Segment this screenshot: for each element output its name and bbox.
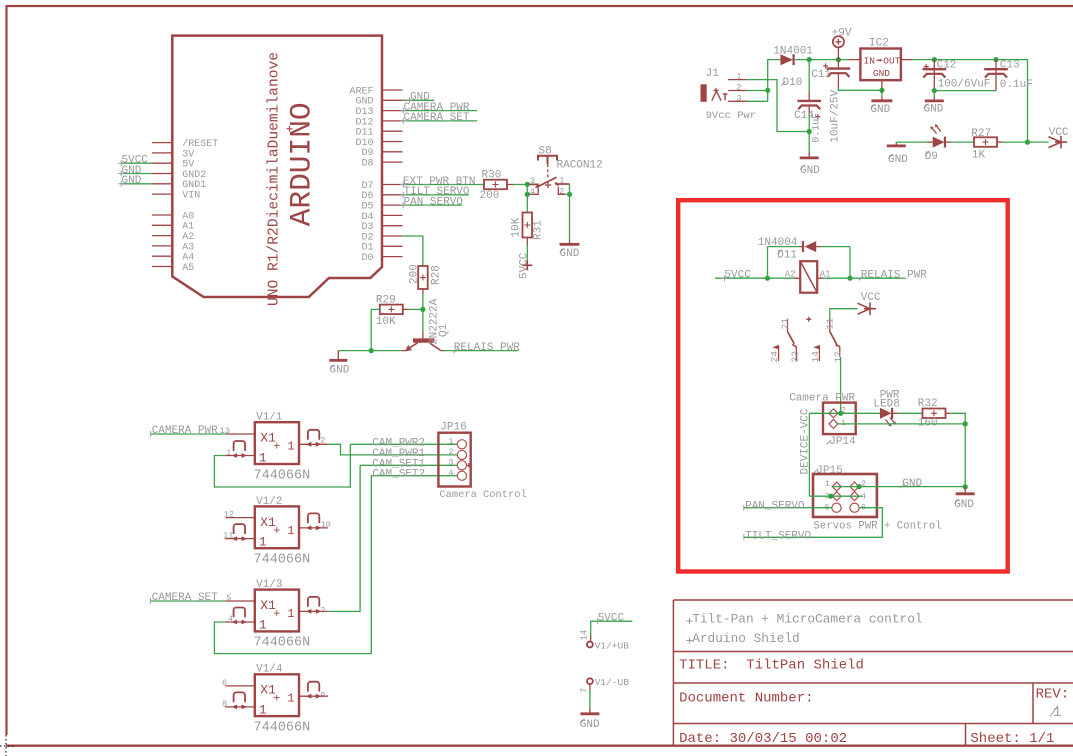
node junction IC2 GND (879, 88, 884, 93)
svg-text:1: 1 (559, 176, 564, 186)
svg-text:V1/3: V1/3 (256, 579, 282, 591)
relay contact arm 21 (787, 319, 789, 332)
svg-text:1: 1 (841, 418, 846, 428)
analog switch V1/3 box (255, 590, 299, 632)
svg-text:TILT_SERVO: TILT_SERVO (745, 530, 811, 542)
wire JP14 pin1 to node (838, 423, 965, 425)
V1 -UB pin (587, 678, 593, 684)
capacitor C13 (995, 60, 997, 91)
svg-text:1: 1 (259, 535, 267, 550)
node junction pin1 wire (963, 421, 968, 426)
frame bottom border (6, 745, 1073, 747)
svg-text:1: 1 (448, 437, 453, 447)
relay contact arm 11 (829, 319, 831, 332)
svg-text:4: 4 (448, 468, 453, 478)
resistor R28 (418, 266, 428, 289)
frame top border (7, 5, 1073, 7)
svg-text:+ 1: + 1 (273, 524, 294, 538)
node junction J1 pin2 (765, 88, 770, 93)
wire net CAM_SET2 (371, 475, 457, 477)
JP15 pin 6 circle (850, 503, 859, 512)
analog switch V1/1 box (255, 422, 299, 464)
connector J1 sleeve contact (723, 94, 728, 100)
V1/4 pin 6 (226, 685, 255, 687)
svg-text:9Vcc Pwr: 9Vcc Pwr (706, 110, 756, 122)
svg-text:VCC: VCC (1049, 127, 1069, 139)
svg-text:24: 24 (769, 351, 780, 363)
wire rail diode to IC2 IN (795, 59, 849, 61)
svg-text:11: 11 (825, 318, 836, 330)
svg-text:A5: A5 (182, 263, 194, 274)
title block outline (673, 600, 1073, 746)
resistor R27 (974, 137, 997, 147)
analog switch V1/2 box (255, 506, 299, 548)
UBPINS (580, 612, 633, 730)
wire net CAM_SET1 (360, 464, 457, 466)
V1/1 pin 2 with icon (299, 443, 328, 445)
REDBOX (678, 200, 1008, 571)
arduino right pins (382, 90, 403, 257)
wire J1 pin1 to C14 bottom (747, 80, 810, 132)
node junction GND corner (963, 484, 968, 489)
svg-text:Document Number:: Document Number: (679, 691, 813, 707)
svg-text:1K: 1K (972, 149, 986, 161)
node junction C14 top (807, 57, 812, 62)
svg-text:+ 1: + 1 (273, 607, 294, 621)
capacitor C12 (933, 60, 935, 91)
svg-text:IC2: IC2 (869, 37, 889, 49)
V1/4 pin 9 with icon (299, 695, 328, 697)
title block divider Sheet (965, 724, 967, 746)
svg-text:A2: A2 (785, 269, 796, 279)
capacitor C14 (808, 60, 810, 92)
wire contact1 down to GND (569, 184, 571, 240)
svg-text:GND: GND (122, 175, 142, 187)
svg-text:R31: R31 (533, 220, 545, 240)
relay contact pin 22 (795, 347, 797, 362)
JP15 pin 5 circle (832, 503, 841, 512)
SWITCHES (150, 412, 526, 736)
svg-text:RELAIS_PWR: RELAIS_PWR (454, 342, 520, 354)
ground symbol JP15 (964, 487, 966, 493)
relay contact pin 24 flag (778, 346, 780, 361)
svg-text:100/6VuF: 100/6VuF (938, 78, 991, 90)
svg-text:UNO R1/R2DiecimilaDuemilanove: UNO R1/R2DiecimilaDuemilanove (267, 52, 283, 306)
svg-text:PAN_SERVO: PAN_SERVO (745, 501, 805, 513)
wire contact 12 down to JP14 pin2 (840, 357, 842, 413)
svg-text:R30: R30 (482, 170, 502, 182)
svg-text:Camera Control: Camera Control (439, 489, 526, 501)
pin numbers JP15 (825, 479, 866, 512)
wire net GND left B (121, 183, 152, 185)
JP15 pin 3 diamond (832, 492, 841, 501)
wire node3 to node4 to R31 (526, 184, 528, 212)
svg-text:Date: 30/03/15 00:02: Date: 30/03/15 00:02 (679, 731, 847, 747)
svg-text:744066N: 744066N (254, 468, 311, 483)
JP16 pin 3 circle (457, 461, 466, 470)
svg-text:0.1uF: 0.1uF (1000, 79, 1033, 91)
wire rail OUT to C12 C13 corner (934, 60, 1027, 143)
J1 pins 1 2 3 (728, 80, 746, 102)
title block divider REV (1032, 683, 1034, 724)
svg-text:V1/2: V1/2 (256, 496, 282, 508)
svg-text:V1/+UB: V1/+UB (595, 640, 630, 651)
pin numbers JP16 (448, 437, 453, 478)
svg-text:2N2222A: 2N2222A (429, 298, 441, 345)
svg-text:VCC: VCC (861, 292, 881, 304)
svg-text:1: 1 (259, 450, 267, 465)
wire R28 to node (422, 289, 424, 294)
svg-text:OUT: OUT (883, 56, 900, 67)
svg-text:9: 9 (320, 690, 325, 700)
wire VCC to contact 11 (830, 309, 858, 319)
relay cross mark (806, 317, 811, 322)
wire R27 to VCC node (997, 141, 1002, 143)
wire net 5VCC (715, 277, 794, 279)
svg-text:IN: IN (864, 56, 875, 67)
switch S8 dashed actuator (547, 164, 549, 180)
connector JP14 box (823, 403, 856, 435)
wire net 5VCC left (121, 162, 152, 164)
svg-text:REV:: REV: (1036, 687, 1070, 703)
svg-text:Sheet: 1/1: Sheet: 1/1 (970, 731, 1054, 747)
svg-text:PAN_SERVO: PAN_SERVO (404, 196, 464, 208)
resistor R32 (923, 409, 946, 419)
svg-text:1: 1 (259, 618, 267, 633)
node junction C14 bottom (807, 129, 812, 134)
svg-text:10K: 10K (376, 316, 396, 328)
svg-text:C13: C13 (1000, 59, 1020, 71)
ground symbol IC2 (881, 96, 883, 100)
svg-text:5VCC: 5VCC (724, 269, 751, 281)
ground symbol V1 (580, 712, 599, 715)
svg-text:12: 12 (832, 351, 843, 363)
wire V1/1 pin2 to CAM_PWR1 (328, 444, 457, 455)
svg-text:744066N: 744066N (254, 720, 311, 735)
svg-text:RACON12: RACON12 (557, 160, 603, 172)
node junction C13 top (993, 57, 998, 62)
svg-text:D0: D0 (361, 253, 373, 264)
resistor R29 (380, 305, 403, 315)
diode D10 (780, 54, 793, 65)
svg-text:JP14: JP14 (829, 436, 856, 448)
connector J1 jack body (701, 84, 707, 102)
IC2 OUT pin wire (901, 59, 913, 61)
wire V1/3 pin4 loop to CAM_SET2 (214, 476, 371, 654)
transistor Q1 emitter (407, 343, 418, 350)
wire net RELAIS_PWR (444, 350, 519, 352)
resistor R30 (484, 180, 507, 190)
svg-text:Servos PWR + Control: Servos PWR + Control (813, 520, 941, 532)
svg-text:10uF/25V: 10uF/25V (829, 89, 841, 142)
svg-text:+ 1: + 1 (273, 692, 294, 706)
ARDUINO (118, 36, 484, 306)
svg-text:R27: R27 (971, 128, 991, 140)
switch S8 hook pin 2 (558, 187, 566, 195)
relay contact pin 12 (839, 347, 841, 358)
V1/3 pin 5 (226, 600, 255, 602)
node 2 junction (567, 192, 572, 197)
wire net PAN_SERVO (403, 204, 463, 206)
svg-text:7: 7 (580, 688, 590, 693)
svg-text:3: 3 (320, 606, 325, 616)
svg-text:LED8: LED8 (873, 398, 899, 410)
arduino left pin names (182, 138, 218, 274)
svg-text:R32: R32 (918, 398, 938, 410)
wire C12 bottom to C13 bottom (934, 90, 996, 92)
switch S8 button cap (538, 156, 557, 164)
svg-text:V1/-UB: V1/-UB (595, 677, 630, 688)
LED D9 (933, 137, 945, 148)
svg-text:D10: D10 (783, 77, 803, 89)
svg-text:2: 2 (861, 479, 866, 489)
svg-text:21: 21 (779, 318, 790, 330)
wire net CAM_PWR2 (350, 443, 457, 445)
svg-text:JP16: JP16 (440, 422, 466, 434)
connector J1 center pin (712, 91, 721, 101)
wire net CAMERA_PWR (403, 110, 478, 112)
svg-text:/RESET: /RESET (182, 138, 218, 150)
relay coil K1 (800, 261, 817, 293)
JP16 pin 4 circle (457, 471, 466, 480)
transistor Q1 base bar (413, 338, 434, 342)
resistor R31 (523, 213, 533, 238)
wire JP15 row2 DEVICE-VCC (809, 495, 862, 497)
svg-text:6: 6 (222, 678, 227, 688)
supply VCC arrow (858, 302, 877, 315)
V1/2 pin 10 with icon (299, 527, 328, 529)
svg-text:4: 4 (228, 614, 233, 624)
wire net PAN_SERVO (744, 507, 832, 509)
wire D11 left branch (800, 246, 804, 248)
wire R30 to node 3 (507, 184, 513, 186)
V1/2 pin 11 with icon (225, 538, 255, 540)
JP14 pin 1 diamond (829, 419, 838, 428)
wire R31 to 5VCC (526, 238, 528, 246)
svg-text:Q1: Q1 (438, 323, 450, 337)
node junction emitter rail (369, 348, 374, 353)
svg-text:V1/1: V1/1 (256, 412, 283, 424)
node 4 junction (525, 192, 530, 197)
svg-text:CAMERA_PWR: CAMERA_PWR (152, 425, 218, 437)
POWER (701, 27, 1069, 177)
LED8 (880, 408, 892, 419)
capacitor C11 (837, 60, 839, 69)
wire R29 right to node (403, 308, 409, 310)
wire JP15 row1 GND (832, 486, 965, 488)
svg-text:C11: C11 (811, 69, 831, 81)
diode D11 (802, 241, 804, 252)
switch S8 arm (527, 177, 556, 186)
wire net CAMERA_SET (403, 120, 478, 122)
node junction C12 bottom (932, 88, 937, 93)
svg-text:3: 3 (448, 458, 453, 468)
supply 5VCC cross (522, 260, 532, 270)
node junction relay A2 (765, 276, 770, 281)
svg-text:1N4004: 1N4004 (758, 237, 798, 249)
node junction JP15 pin3 (828, 494, 833, 499)
V1/3 pin 3 with icon (299, 610, 328, 612)
svg-text:14: 14 (810, 351, 821, 363)
wire net TILT_SERVO (403, 194, 470, 196)
wire R29 left down to emitter rail (371, 309, 380, 350)
svg-text:GND: GND (902, 478, 922, 490)
svg-text:CAM_SET2: CAM_SET2 (372, 469, 425, 481)
svg-text:1: 1 (736, 72, 741, 82)
svg-text:200: 200 (480, 190, 500, 202)
JP16 pin 1 circle (457, 440, 466, 449)
svg-text:2: 2 (320, 436, 325, 446)
S8AREA (480, 146, 603, 279)
node junction relay A1 (847, 276, 852, 281)
svg-text:5: 5 (226, 593, 231, 603)
svg-text:1: 1 (226, 448, 231, 458)
V1/3 pin 4 with icon (225, 621, 255, 623)
svg-text:11: 11 (223, 531, 233, 541)
switch S8 contact 1 (555, 183, 569, 185)
svg-text:2: 2 (448, 447, 453, 457)
wire D11 right branch (816, 246, 820, 248)
svg-text:D9: D9 (925, 151, 938, 163)
ground symbol Q1 (337, 351, 339, 359)
node junction JP14 pin2 (838, 411, 843, 416)
connector JP15 box (813, 474, 877, 517)
frame left border (5, 5, 7, 735)
wire JP14 pin2 to LED8 (841, 412, 880, 414)
supply VCC arrow (1049, 136, 1068, 149)
wire J1 pin2 pin3 to diode (747, 60, 781, 102)
JP15 pin 2 diamond (850, 482, 859, 491)
svg-text:10K: 10K (511, 217, 523, 237)
connector JP16 box (438, 433, 470, 487)
svg-text:CAMERA_SET: CAMERA_SET (152, 592, 218, 604)
node junction R28/R29/Q1 (420, 307, 425, 312)
wire JP15 pin6 to TILT loop (744, 508, 883, 538)
analog switch V1/4 box (255, 674, 299, 716)
wire net GND left A (121, 173, 152, 175)
wire net RELAIS_PWR (823, 277, 906, 279)
svg-text:744066N: 744066N (254, 636, 311, 651)
svg-text:3: 3 (530, 176, 535, 186)
wire LED8 to R32 (893, 412, 898, 414)
svg-text:5VCC: 5VCC (518, 252, 530, 279)
JP15 pin 4 diamond (850, 492, 859, 501)
wire net GND right (403, 99, 435, 101)
svg-text:R29: R29 (376, 295, 396, 307)
Q1AREA (329, 264, 520, 376)
svg-text:8: 8 (222, 699, 227, 709)
transistor Q1 collector (430, 343, 441, 351)
wire node to VCC arrow (1028, 141, 1049, 143)
wire GND to LED D9 (896, 141, 927, 143)
svg-text:12: 12 (224, 509, 234, 519)
svg-text:V1/4: V1/4 (256, 664, 283, 676)
wire DEVICE-VCC horizontal into JP14 pin2 (809, 412, 840, 414)
red highlight rectangle (678, 200, 1008, 571)
svg-text:+9V: +9V (832, 27, 852, 39)
JP16 pin 2 circle (457, 450, 466, 459)
ground symbol D9 (895, 142, 897, 145)
svg-text:D8: D8 (361, 159, 373, 170)
switch S8 arm cross (545, 182, 552, 189)
svg-text:3: 3 (736, 93, 741, 103)
svg-text:1N4001: 1N4001 (773, 45, 813, 57)
node 3 junction (525, 182, 530, 187)
JP15 pin 1 diamond (832, 482, 841, 491)
svg-text:DEVICE-VCC: DEVICE-VCC (799, 408, 811, 474)
svg-text:Arduino Shield: Arduino Shield (692, 631, 800, 646)
svg-text:0.1uF: 0.1uF (812, 113, 823, 143)
wire D2 to R28 (403, 236, 423, 266)
IC2 pin name OUT with arrow (877, 59, 882, 61)
wire R32 to corner down (946, 412, 951, 414)
node junction +9V C11 (836, 57, 841, 62)
LED8 arrows (886, 418, 895, 426)
svg-text:ARDUINO: ARDUINO (285, 102, 319, 226)
relay contact pin 14 flag (818, 346, 820, 361)
V1/1 pin 1 with icon (225, 455, 255, 457)
JP14 pin 2 diamond (829, 409, 838, 418)
V1/2 pin 12 (226, 517, 255, 519)
svg-text:+ 1: + 1 (273, 440, 294, 454)
svg-text:S8: S8 (539, 146, 552, 158)
ground symbol under S8 pin2 (569, 240, 571, 244)
wire V1/1 pin1 loop to CAM_PWR2 (214, 444, 350, 487)
arduino + mark in text (287, 126, 293, 132)
wire -UB to GND (589, 684, 591, 690)
wire net CAMERA_SET to V1/3 (150, 600, 225, 602)
wire emitter rail to GND (338, 350, 402, 352)
corner crop mark dotted (0, 735, 14, 756)
svg-text:5VCC: 5VCC (598, 612, 625, 624)
svg-text:10: 10 (321, 520, 331, 530)
svg-text:RELAIS_PWR: RELAIS_PWR (861, 270, 927, 282)
svg-text:2: 2 (736, 83, 741, 93)
TITLEBLOCK (673, 600, 1073, 747)
wire node down to Q1 base (422, 309, 424, 331)
wire DEVICE-VCC vertical (808, 413, 810, 496)
switch S8 hook pin 4 (530, 186, 539, 195)
ground symbol C14 (808, 132, 810, 153)
svg-text:2: 2 (559, 187, 564, 197)
ground symbol C12 (933, 91, 935, 97)
wire V1/3 pin3 to CAM_SET1 (328, 465, 360, 611)
svg-text:4: 4 (530, 187, 535, 197)
node junction C12 top (932, 57, 937, 62)
node junction VCC (1025, 140, 1030, 145)
svg-text:Tilt-Pan + MicroCamera control: Tilt-Pan + MicroCamera control (692, 611, 922, 626)
svg-text:744066N: 744066N (254, 553, 311, 568)
IC2 GND pin wire (881, 80, 883, 88)
node junction JP15 pin2 (856, 484, 861, 489)
svg-text:TITLE: TiltPan Shield: TITLE: TiltPan Shield (679, 657, 864, 673)
IC2 regulator box (860, 49, 901, 81)
svg-text:1: 1 (825, 479, 830, 489)
arduino right pin names (349, 86, 373, 264)
svg-text:C12: C12 (937, 59, 957, 71)
svg-text:14: 14 (580, 630, 590, 641)
svg-text:1: 1 (259, 702, 267, 717)
svg-text:CAMERA_SET: CAMERA_SET (404, 112, 470, 124)
svg-text:R28: R28 (430, 265, 442, 285)
supply +9V (833, 36, 844, 47)
wire net 5VCC to V1 supply (591, 621, 633, 635)
svg-text:13: 13 (220, 426, 230, 436)
V1 +UB pin (590, 635, 592, 642)
svg-text:J1: J1 (706, 68, 720, 80)
wire net EXT_PWR_BTN (403, 184, 485, 186)
svg-text:GND: GND (873, 68, 890, 79)
